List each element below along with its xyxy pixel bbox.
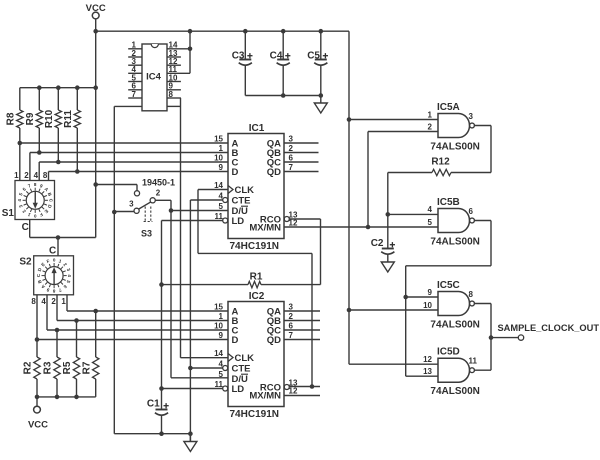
- svg-text:R2: R2: [23, 361, 34, 374]
- svg-text:5: 5: [428, 218, 433, 227]
- svg-text:S2: S2: [19, 257, 32, 268]
- svg-text:4: 4: [219, 191, 224, 200]
- svg-text:2: 2: [289, 144, 294, 153]
- svg-text:8: 8: [52, 289, 55, 294]
- svg-text:74ALS00N: 74ALS00N: [430, 320, 479, 331]
- svg-text:QD: QD: [267, 167, 281, 178]
- svg-text:4: 4: [428, 205, 433, 214]
- svg-text:CTE: CTE: [232, 364, 251, 375]
- svg-text:C3: C3: [232, 51, 245, 62]
- svg-text:12: 12: [289, 386, 298, 395]
- svg-text:VCC: VCC: [28, 420, 48, 431]
- svg-text:R10: R10: [44, 109, 55, 128]
- svg-text:3: 3: [289, 134, 294, 143]
- svg-text:74HC191N: 74HC191N: [230, 409, 279, 420]
- svg-text:R8: R8: [5, 112, 16, 125]
- svg-text:15: 15: [214, 134, 223, 143]
- svg-text:5: 5: [219, 370, 224, 379]
- svg-text:SAMPLE_CLOCK_OUT: SAMPLE_CLOCK_OUT: [498, 323, 600, 334]
- svg-text:7: 7: [132, 90, 137, 99]
- svg-text:3: 3: [289, 302, 294, 311]
- svg-text:QD: QD: [267, 335, 281, 346]
- svg-text:2: 2: [51, 297, 56, 306]
- svg-text:8: 8: [469, 290, 474, 299]
- svg-text:MX/MN: MX/MN: [249, 391, 281, 402]
- svg-text:C5: C5: [307, 51, 320, 62]
- svg-text:8: 8: [43, 171, 48, 180]
- svg-text:12: 12: [289, 218, 298, 227]
- svg-text:D: D: [232, 335, 239, 346]
- svg-text:3: 3: [129, 200, 134, 209]
- svg-text:C4: C4: [270, 51, 283, 62]
- svg-text:IC5C: IC5C: [437, 280, 460, 291]
- svg-text:9: 9: [219, 331, 224, 340]
- svg-text:MX/MN: MX/MN: [249, 223, 281, 234]
- svg-text:6: 6: [469, 207, 474, 216]
- svg-text:74ALS00N: 74ALS00N: [430, 386, 479, 397]
- svg-text:0: 0: [33, 213, 36, 218]
- svg-text:5: 5: [219, 202, 224, 211]
- svg-text:IC1: IC1: [249, 123, 265, 134]
- svg-text:C2: C2: [371, 238, 384, 249]
- svg-text:7: 7: [289, 331, 294, 340]
- svg-text:8: 8: [31, 297, 36, 306]
- svg-text:IC5A: IC5A: [437, 102, 460, 113]
- svg-text:13: 13: [423, 367, 432, 376]
- svg-text:4: 4: [17, 199, 22, 202]
- svg-text:19450-1: 19450-1: [142, 177, 175, 187]
- svg-text:1: 1: [219, 144, 224, 153]
- svg-text:R11: R11: [63, 110, 74, 128]
- svg-text:2: 2: [24, 171, 29, 180]
- svg-text:CTE: CTE: [232, 196, 251, 207]
- svg-text:12: 12: [423, 355, 432, 364]
- svg-text:10: 10: [214, 321, 223, 330]
- svg-text:6: 6: [289, 321, 294, 330]
- svg-text:IC5D: IC5D: [437, 347, 460, 358]
- svg-text:IC5B: IC5B: [437, 197, 460, 208]
- svg-text:R3: R3: [43, 361, 54, 374]
- svg-text:R1: R1: [250, 272, 263, 283]
- svg-text:7: 7: [289, 163, 294, 172]
- svg-text:9: 9: [219, 163, 224, 172]
- svg-text:R7: R7: [81, 361, 92, 374]
- svg-text:S3: S3: [141, 229, 152, 239]
- svg-text:D: D: [232, 167, 239, 178]
- svg-text:9: 9: [428, 288, 433, 297]
- svg-text:8: 8: [34, 182, 37, 187]
- svg-text:2: 2: [289, 312, 294, 321]
- svg-text:4: 4: [67, 274, 72, 277]
- svg-text:14: 14: [214, 181, 223, 190]
- svg-text:C1: C1: [147, 398, 160, 409]
- svg-text:11: 11: [215, 212, 224, 221]
- svg-text:11: 11: [469, 357, 478, 366]
- svg-text:3: 3: [469, 112, 474, 121]
- svg-text:74HC191N: 74HC191N: [230, 241, 279, 252]
- svg-text:74ALS00N: 74ALS00N: [430, 142, 479, 153]
- svg-text:CLK: CLK: [235, 353, 255, 364]
- svg-text:R9: R9: [25, 112, 36, 125]
- svg-text:6: 6: [289, 153, 294, 162]
- svg-text:C: C: [49, 246, 56, 257]
- svg-text:8: 8: [169, 90, 174, 99]
- svg-text:1: 1: [428, 110, 433, 119]
- svg-text:IC4: IC4: [146, 71, 162, 82]
- svg-text:2: 2: [428, 122, 433, 131]
- svg-text:LD: LD: [232, 384, 245, 395]
- svg-text:S1: S1: [2, 208, 15, 219]
- svg-text:1: 1: [219, 312, 224, 321]
- svg-text:4: 4: [41, 297, 46, 306]
- svg-text:4: 4: [219, 359, 224, 368]
- svg-text:0: 0: [53, 258, 56, 263]
- svg-text:11: 11: [215, 380, 224, 389]
- svg-text:IC2: IC2: [249, 291, 265, 302]
- svg-text:10: 10: [423, 301, 432, 310]
- svg-text:4: 4: [34, 171, 39, 180]
- svg-text:1: 1: [14, 171, 19, 180]
- svg-text:15: 15: [214, 302, 223, 311]
- svg-text:2: 2: [156, 188, 161, 197]
- svg-text:10: 10: [214, 153, 223, 162]
- svg-text:1: 1: [61, 297, 66, 306]
- svg-text:LD: LD: [232, 216, 245, 227]
- svg-text:C: C: [22, 222, 29, 233]
- svg-text:R12: R12: [431, 157, 450, 168]
- svg-text:R5: R5: [62, 361, 73, 374]
- svg-text:74ALS00N: 74ALS00N: [430, 237, 479, 248]
- svg-text:14: 14: [214, 349, 223, 358]
- svg-text:CLK: CLK: [235, 185, 255, 196]
